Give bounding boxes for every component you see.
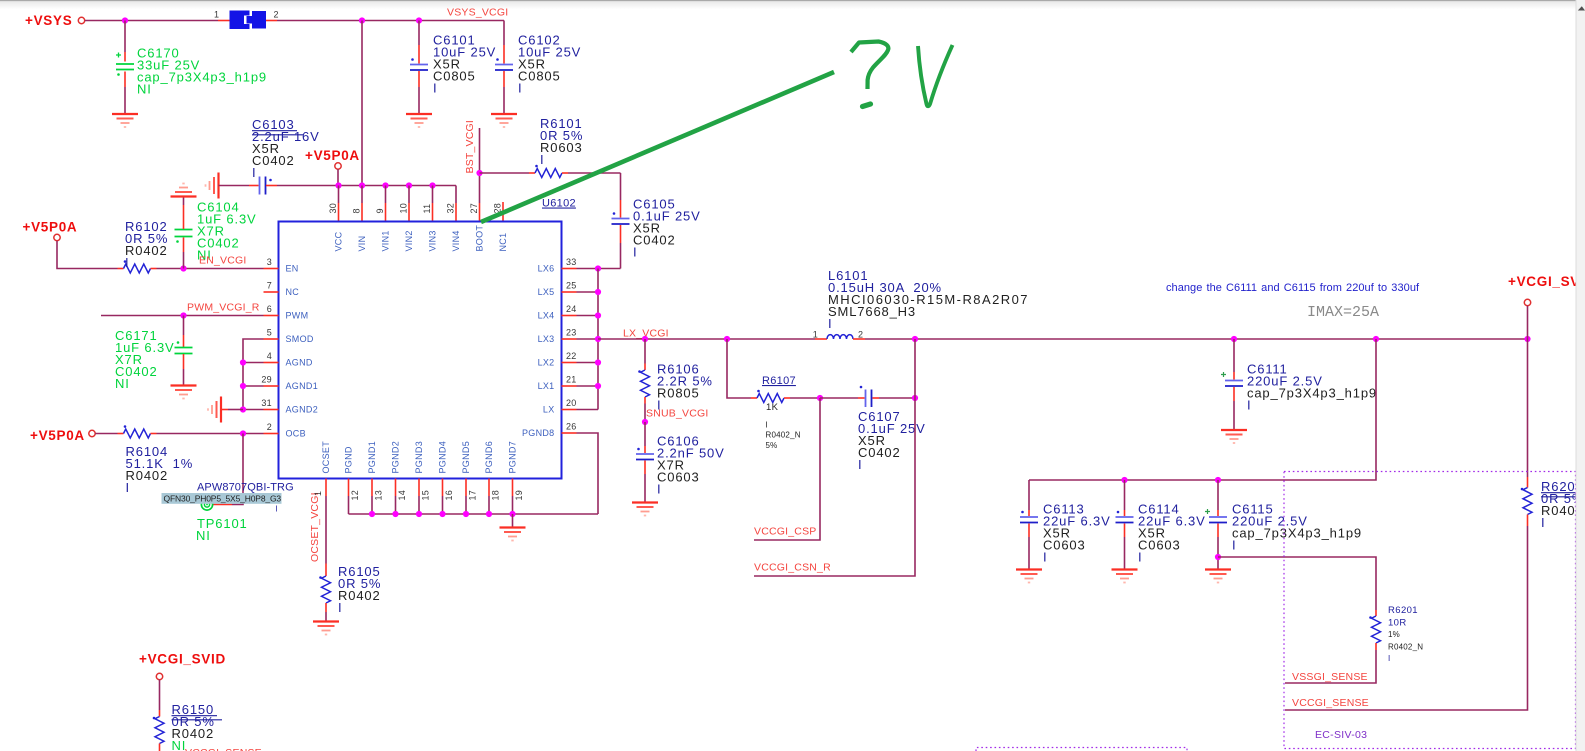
svg-text:EN: EN xyxy=(286,264,299,274)
pin PGND7 stub xyxy=(512,479,514,497)
second dashed box (bottom) xyxy=(976,748,1187,751)
capacitor C6101 xyxy=(410,21,428,114)
L6101 value text xyxy=(828,268,1029,331)
svg-text:27: 27 xyxy=(469,203,479,214)
resistor R6101 xyxy=(480,165,621,178)
wire sense tap to R6201 xyxy=(1218,557,1376,610)
R6104 value text xyxy=(126,444,194,495)
svg-text:I: I xyxy=(1232,537,1236,552)
svg-text:+VSYS: +VSYS xyxy=(25,13,72,28)
svg-text:2: 2 xyxy=(267,422,272,432)
svg-text:1: 1 xyxy=(313,491,323,496)
svg-text:12: 12 xyxy=(350,490,360,501)
sense area dashed box xyxy=(1284,472,1576,749)
capacitor C6111 xyxy=(1221,339,1243,430)
wire PWM xyxy=(101,315,264,317)
capacitor C6107 xyxy=(820,386,915,407)
wire BST net stub xyxy=(479,128,481,203)
U6102 right pin names and numbers xyxy=(522,257,577,438)
svg-text:1: 1 xyxy=(214,10,219,20)
svg-text:VIN3: VIN3 xyxy=(428,230,438,251)
svg-text:change the C6111 and C6115 fro: change the C6111 and C6115 from 220uf to… xyxy=(1166,282,1420,294)
U6102 top pin names and numbers (rotated) xyxy=(328,203,508,252)
svg-text:R0402_N: R0402_N xyxy=(1388,643,1423,652)
svg-text:VCC: VCC xyxy=(334,231,344,251)
svg-text:+V5P0A: +V5P0A xyxy=(23,220,78,235)
svg-text:EN_VCGI: EN_VCGI xyxy=(199,255,247,267)
svg-text:OCSET_VCGI: OCSET_VCGI xyxy=(309,492,321,562)
wire V5P0A to bus xyxy=(337,169,339,185)
junction OCB xyxy=(240,430,246,436)
svg-text:VSSGI_SENSE: VSSGI_SENSE xyxy=(1292,671,1368,683)
C6170 value text xyxy=(137,45,267,96)
svg-text:VIN1: VIN1 xyxy=(381,230,391,251)
capacitor C6105 xyxy=(612,173,630,269)
junction PGND bus x=372 xyxy=(369,511,375,517)
C6115 value text xyxy=(1232,501,1362,552)
svg-text:11: 11 xyxy=(422,204,432,214)
svg-text:26: 26 xyxy=(566,422,577,432)
svg-text:I: I xyxy=(433,80,437,95)
R6102 value text xyxy=(125,219,168,270)
junction LX bus y=362.5 xyxy=(595,359,601,365)
C6113 value text xyxy=(1043,501,1111,564)
hand annotation V xyxy=(918,45,953,106)
svg-text:I: I xyxy=(633,244,637,259)
svg-text:PGND2: PGND2 xyxy=(391,441,401,474)
pin NC1 stub xyxy=(502,202,504,222)
svg-text:VSYS_VCGI: VSYS_VCGI xyxy=(447,7,508,19)
ground (AGND, sideways) xyxy=(228,409,243,411)
svg-text:R0402: R0402 xyxy=(126,468,169,483)
svg-text:6: 6 xyxy=(267,304,272,314)
svg-text:I: I xyxy=(125,255,129,270)
capacitor C6170 (NI) xyxy=(116,21,134,114)
wire output cap bus xyxy=(1029,339,1376,480)
junction AGND2 xyxy=(240,406,246,412)
svg-text:16: 16 xyxy=(444,490,454,501)
junction PGND bus x=419 xyxy=(416,511,422,517)
svg-text:C0805: C0805 xyxy=(433,68,476,83)
svg-text:1: 1 xyxy=(813,330,818,340)
wire LX output xyxy=(598,338,815,340)
R6105 value text xyxy=(338,564,381,615)
hand annotation question mark xyxy=(851,42,888,90)
C6104 value text xyxy=(197,199,257,262)
svg-text:VIN: VIN xyxy=(357,236,367,252)
svg-text:I: I xyxy=(1043,549,1047,564)
svg-text:R0402: R0402 xyxy=(125,243,168,258)
ground (C6114) xyxy=(1112,570,1138,583)
pin PGND2 stub xyxy=(395,479,397,497)
svg-text:VCCGI_CSN_R: VCCGI_CSN_R xyxy=(754,562,831,574)
svg-text:22: 22 xyxy=(566,351,577,361)
svg-text:VCCGI_SENSE: VCCGI_SENSE xyxy=(185,747,262,751)
svg-text:+VCGI_SVID: +VCGI_SVID xyxy=(139,652,226,667)
junction BST xyxy=(476,170,482,176)
junction LX line x=645 xyxy=(642,336,648,342)
junction VSYS/C6101 xyxy=(416,17,422,23)
svg-text:18: 18 xyxy=(491,490,501,501)
svg-text:PGND6: PGND6 xyxy=(484,441,494,474)
fuse/jumper pins xyxy=(218,20,230,22)
junction VIN bus x=338.5 xyxy=(335,182,341,188)
svg-text:VCCGI_CSP: VCCGI_CSP xyxy=(754,526,816,538)
junction PGND bus x=512.5 xyxy=(509,511,515,517)
wire SMOD/AGND bus xyxy=(243,339,264,410)
C6101 value text xyxy=(433,32,496,95)
svg-text:LX3: LX3 xyxy=(538,334,555,344)
svg-text:C0603: C0603 xyxy=(657,469,700,484)
svg-text:NC1: NC1 xyxy=(498,233,508,252)
svg-text:AGND1: AGND1 xyxy=(286,381,319,391)
pin PGND4 stub xyxy=(442,479,444,497)
wire LX output right xyxy=(865,338,1528,340)
junction LX line x=727 xyxy=(724,336,730,342)
svg-text:PGND8: PGND8 xyxy=(522,428,555,438)
svg-text:3: 3 xyxy=(267,257,272,267)
svg-text:+V5P0A: +V5P0A xyxy=(30,428,85,443)
svg-text:C0402: C0402 xyxy=(858,445,901,460)
testpoint TP6101 (NI) xyxy=(201,499,212,510)
svg-text:7: 7 xyxy=(267,281,272,291)
svg-text:+VCGI_SVID: +VCGI_SVID xyxy=(1508,274,1585,289)
svg-text:4: 4 xyxy=(267,351,272,361)
ground (C6106) xyxy=(632,503,658,516)
resistor R6102 xyxy=(57,241,264,273)
C6106 value text xyxy=(657,433,725,496)
svg-text:14: 14 xyxy=(397,490,407,501)
ground (R6105) xyxy=(313,622,339,635)
ground (C6104, inverted) xyxy=(171,184,197,197)
capacitor C6114 xyxy=(1116,480,1134,570)
pin VIN4 stub xyxy=(455,186,457,204)
svg-text:32: 32 xyxy=(446,203,456,214)
junction PWM/C6171 xyxy=(180,312,186,318)
svg-text:PGND: PGND xyxy=(344,446,354,473)
junction LX bus y=339 xyxy=(595,336,601,342)
svg-text:NC: NC xyxy=(286,287,300,297)
junction VIN bus x=409 xyxy=(406,182,412,188)
wire VSYS horizontal xyxy=(85,20,218,22)
ground (C6103, sideways) xyxy=(206,173,219,199)
junction PGND bus x=466 xyxy=(463,511,469,517)
window scrollbar xyxy=(1576,0,1585,751)
resistor R6150 xyxy=(153,680,164,751)
pin PGND1 stub xyxy=(371,479,373,497)
junction LX bus y=292 xyxy=(595,289,601,295)
svg-text:BOOT: BOOT xyxy=(475,225,485,252)
svg-text:APW8707QBI-TRG: APW8707QBI-TRG xyxy=(197,482,294,494)
svg-text:R0402_N: R0402_N xyxy=(766,431,801,440)
junction SNUB xyxy=(642,419,648,425)
pin PGND3 stub xyxy=(418,479,420,497)
junction C6115 sense tap xyxy=(1215,554,1221,560)
pin BOOT stub xyxy=(479,203,481,222)
ground (C6113) xyxy=(1016,570,1042,583)
svg-text:C0402: C0402 xyxy=(252,153,295,168)
junction C6107/CSN riser xyxy=(912,395,918,401)
junction LX bus y=386 xyxy=(595,383,601,389)
resistor R6107 xyxy=(751,390,820,403)
junction VIN bus x=362 xyxy=(359,182,365,188)
svg-text:R0603: R0603 xyxy=(540,140,583,155)
svg-text:C0402: C0402 xyxy=(633,232,676,247)
svg-text:LX2: LX2 xyxy=(538,358,555,368)
junction VSYS/VIN riser xyxy=(359,17,365,23)
svg-text:2: 2 xyxy=(274,10,279,20)
svg-text:10R: 10R xyxy=(1388,618,1407,629)
svg-text:QFN30_PH0P5_5X5_H0P8_G3: QFN30_PH0P5_5X5_H0P8_G3 xyxy=(164,494,282,504)
R6150 value text xyxy=(172,702,215,751)
svg-text:LX6: LX6 xyxy=(538,264,555,274)
junction VSYS/C6170 xyxy=(122,17,128,23)
terminal +VCGI_SVID xyxy=(1524,299,1530,305)
capacitor C6113 xyxy=(1020,480,1038,570)
svg-text:8: 8 xyxy=(352,208,362,213)
svg-text:R0402: R0402 xyxy=(338,588,381,603)
svg-text:31: 31 xyxy=(261,398,272,408)
svg-text:5%: 5% xyxy=(766,441,778,450)
svg-text:NI: NI xyxy=(115,376,130,391)
pin PGND5 stub xyxy=(465,479,467,497)
svg-text:R6201: R6201 xyxy=(1388,605,1418,616)
wire OCB to TP6101 xyxy=(232,434,243,505)
junction cap bus C6114 xyxy=(1121,477,1127,483)
svg-text:+V5P0A: +V5P0A xyxy=(305,148,360,163)
op-amp / regulator IC U6102 body xyxy=(279,222,562,479)
svg-text:cap_7p3X4p3_h1p9: cap_7p3X4p3_h1p9 xyxy=(1232,525,1362,540)
svg-text:15: 15 xyxy=(421,490,431,501)
junction EN/C6104 xyxy=(180,265,186,271)
svg-text:30: 30 xyxy=(328,203,338,214)
junction LX line x=1376 xyxy=(1373,336,1379,342)
svg-text:IMAX=25A: IMAX=25A xyxy=(1307,304,1379,321)
svg-text:21: 21 xyxy=(566,375,577,385)
R6101 value text xyxy=(540,116,583,167)
C6103 underline marks xyxy=(252,130,297,132)
R6203 value text xyxy=(1541,479,1584,530)
svg-text:I: I xyxy=(766,421,768,430)
right pin stubs xyxy=(562,268,577,270)
junction LX line x=1234 xyxy=(1231,336,1237,342)
svg-text:10: 10 xyxy=(399,203,409,214)
junction LX bus y=315.5 xyxy=(595,312,601,318)
svg-text:R6107: R6107 xyxy=(762,375,796,387)
svg-text:29: 29 xyxy=(261,375,272,385)
junction PGND bus x=442.5 xyxy=(439,511,445,517)
R6201 value text xyxy=(1388,605,1423,663)
svg-text:cap_7p3X4p3_h1p9: cap_7p3X4p3_h1p9 xyxy=(137,69,267,84)
svg-text:U6102: U6102 xyxy=(542,198,576,210)
TP6101 ref text xyxy=(197,516,248,531)
junction PGND bus x=489 xyxy=(486,511,492,517)
svg-text:2: 2 xyxy=(858,330,863,340)
junction VIN bus x=385.5 xyxy=(382,182,388,188)
wire PGND bus xyxy=(349,513,599,515)
svg-text:9: 9 xyxy=(375,208,385,213)
window top edge band xyxy=(0,0,1585,1)
resistor R6106 xyxy=(638,339,649,422)
svg-text:BST_VCGI: BST_VCGI xyxy=(464,120,476,174)
svg-text:19: 19 xyxy=(514,490,524,501)
C6114 value text xyxy=(1138,501,1206,564)
svg-text:NI: NI xyxy=(137,81,152,96)
inductor L6101 xyxy=(815,335,865,339)
ground (C6115) xyxy=(1205,570,1231,583)
svg-text:SNUB_VCGI: SNUB_VCGI xyxy=(646,408,708,420)
svg-text:13: 13 xyxy=(374,490,384,501)
pin PGND stub xyxy=(348,479,350,497)
svg-text:PWM_VCGI_R: PWM_VCGI_R xyxy=(187,302,260,314)
svg-text:I: I xyxy=(1138,549,1142,564)
svg-text:SML7668_H3: SML7668_H3 xyxy=(828,304,916,319)
wire +VCGI_SVID riser xyxy=(1527,306,1529,339)
ground (PGND bus) xyxy=(512,514,514,528)
svg-text:I: I xyxy=(338,600,342,615)
capacitor C6115 xyxy=(1205,480,1227,570)
svg-text:20: 20 xyxy=(566,398,577,408)
wire VCCGI_CSP xyxy=(754,398,820,540)
svg-text:33: 33 xyxy=(566,257,577,267)
svg-text:I: I xyxy=(828,316,832,331)
capacitor C6104 (NI) xyxy=(175,197,193,269)
svg-text:AGND: AGND xyxy=(286,358,313,368)
svg-text:I: I xyxy=(126,480,130,495)
C6102 value text xyxy=(518,32,581,95)
C6107 value text xyxy=(858,409,926,472)
junction cap bus C6115 xyxy=(1215,477,1221,483)
ground (C6102) xyxy=(491,114,517,127)
R6203 underline marks xyxy=(1541,493,1576,497)
ground (C6101) xyxy=(406,114,432,127)
svg-text:5: 5 xyxy=(267,328,272,338)
svg-text:cap_7p3X4p3_h1p9: cap_7p3X4p3_h1p9 xyxy=(1247,385,1377,400)
C6111 value text xyxy=(1247,361,1377,412)
svg-text:LX5: LX5 xyxy=(538,287,555,297)
pins VCC/VIN1..VIN3 stubs xyxy=(338,186,340,204)
junction AGND1 xyxy=(240,383,246,389)
svg-text:PGND5: PGND5 xyxy=(461,441,471,474)
svg-text:I: I xyxy=(858,457,862,472)
svg-text:23: 23 xyxy=(566,328,577,338)
C6103 value text xyxy=(252,117,320,180)
terminal +V5P0A (EN) xyxy=(54,234,60,240)
svg-text:VCCGI_SENSE: VCCGI_SENSE xyxy=(1292,697,1369,709)
svg-text:C0805: C0805 xyxy=(518,68,561,83)
junction R6107/C6107 xyxy=(817,395,823,401)
svg-text:AGND2: AGND2 xyxy=(286,405,319,415)
svg-text:PGND3: PGND3 xyxy=(414,441,424,474)
U6102 left pin names and numbers xyxy=(261,257,318,439)
svg-text:I: I xyxy=(1388,654,1390,663)
wire LX6 row to C6105 xyxy=(577,268,621,270)
pin PGND6 stub xyxy=(488,479,490,497)
ground (C6171) xyxy=(171,386,197,399)
terminal +VSYS xyxy=(78,17,84,23)
U6102 bottom pin names and numbers (rotated) xyxy=(321,441,524,501)
svg-text:NI: NI xyxy=(172,738,187,751)
svg-text:25: 25 xyxy=(566,281,577,291)
svg-text:I: I xyxy=(540,152,544,167)
svg-text:1%: 1% xyxy=(1388,630,1400,639)
svg-text:I: I xyxy=(1541,515,1545,530)
capacitor C6106 xyxy=(636,422,654,503)
U6102 footprint (highlighted) xyxy=(162,493,282,504)
svg-text:PGND1: PGND1 xyxy=(367,441,377,474)
R6107 sub fields xyxy=(766,421,801,451)
svg-text:PGND4: PGND4 xyxy=(438,441,448,474)
capacitor C6171 (NI) xyxy=(175,316,193,386)
resistor R6203 xyxy=(1285,339,1532,710)
svg-text:I: I xyxy=(1247,397,1251,412)
junction VIN bus x=432.5 xyxy=(429,182,435,188)
svg-text:I: I xyxy=(657,481,661,496)
svg-text:PGND7: PGND7 xyxy=(508,441,518,474)
wire VIN bus xyxy=(277,185,456,187)
junction LX6 xyxy=(595,265,601,271)
resistor R6201 xyxy=(1285,610,1381,683)
svg-text:SMOD: SMOD xyxy=(286,334,314,344)
wire LX to R6107 xyxy=(727,339,751,398)
fuse/jumper PJP symbol xyxy=(230,11,267,30)
left pin stubs xyxy=(264,268,279,270)
svg-text:C0603: C0603 xyxy=(1138,537,1181,552)
terminal +V5P0A (VCC) xyxy=(335,163,341,169)
junction LX line x=915 xyxy=(912,336,918,342)
junction LX line x=1527.5 xyxy=(1524,336,1530,342)
svg-text:1K: 1K xyxy=(766,402,779,413)
wire VSYS_VCGI to VIN xyxy=(361,21,363,186)
terminal +V5P0A (OCB) xyxy=(89,430,95,436)
svg-text:OCB: OCB xyxy=(286,429,306,439)
svg-text:24: 24 xyxy=(566,304,577,314)
resistor R6104 xyxy=(95,425,263,438)
R6106 value text xyxy=(657,361,713,412)
ground (C6111) xyxy=(1221,430,1247,443)
svg-text:I: I xyxy=(252,165,256,180)
svg-text:EC-SIV-03: EC-SIV-03 xyxy=(1315,729,1367,741)
terminal +VCGI_SVID (bottom) xyxy=(156,673,162,679)
wire OCSET xyxy=(325,479,327,497)
svg-text:17: 17 xyxy=(468,490,478,501)
svg-text:LX1: LX1 xyxy=(538,381,555,391)
svg-text:VIN4: VIN4 xyxy=(451,230,461,251)
junction AGND xyxy=(240,359,246,365)
svg-text:I: I xyxy=(276,505,278,514)
svg-text:OCSET: OCSET xyxy=(321,441,331,474)
svg-text:R0805: R0805 xyxy=(657,385,700,400)
junction PGND bus x=395.5 xyxy=(392,511,398,517)
wire CSN riser xyxy=(754,339,915,576)
ground (C6170) xyxy=(112,114,138,127)
C6105 value text xyxy=(633,196,701,259)
C6171 value text xyxy=(115,328,175,391)
svg-text:C0603: C0603 xyxy=(1043,537,1086,552)
resistor R6105 xyxy=(319,564,330,622)
svg-text:VIN2: VIN2 xyxy=(404,230,414,251)
svg-text:LX: LX xyxy=(543,405,555,415)
hand annotation green line xyxy=(481,72,834,222)
TP6101 NI text xyxy=(196,528,211,543)
wire LX bus xyxy=(597,269,599,410)
capacitor C6103 xyxy=(219,177,278,195)
svg-text:I: I xyxy=(518,80,522,95)
R6150 underline marks xyxy=(172,716,223,720)
capacitor C6102 xyxy=(495,21,513,114)
svg-text:PWM: PWM xyxy=(286,311,309,321)
svg-text:LX4: LX4 xyxy=(538,311,555,321)
